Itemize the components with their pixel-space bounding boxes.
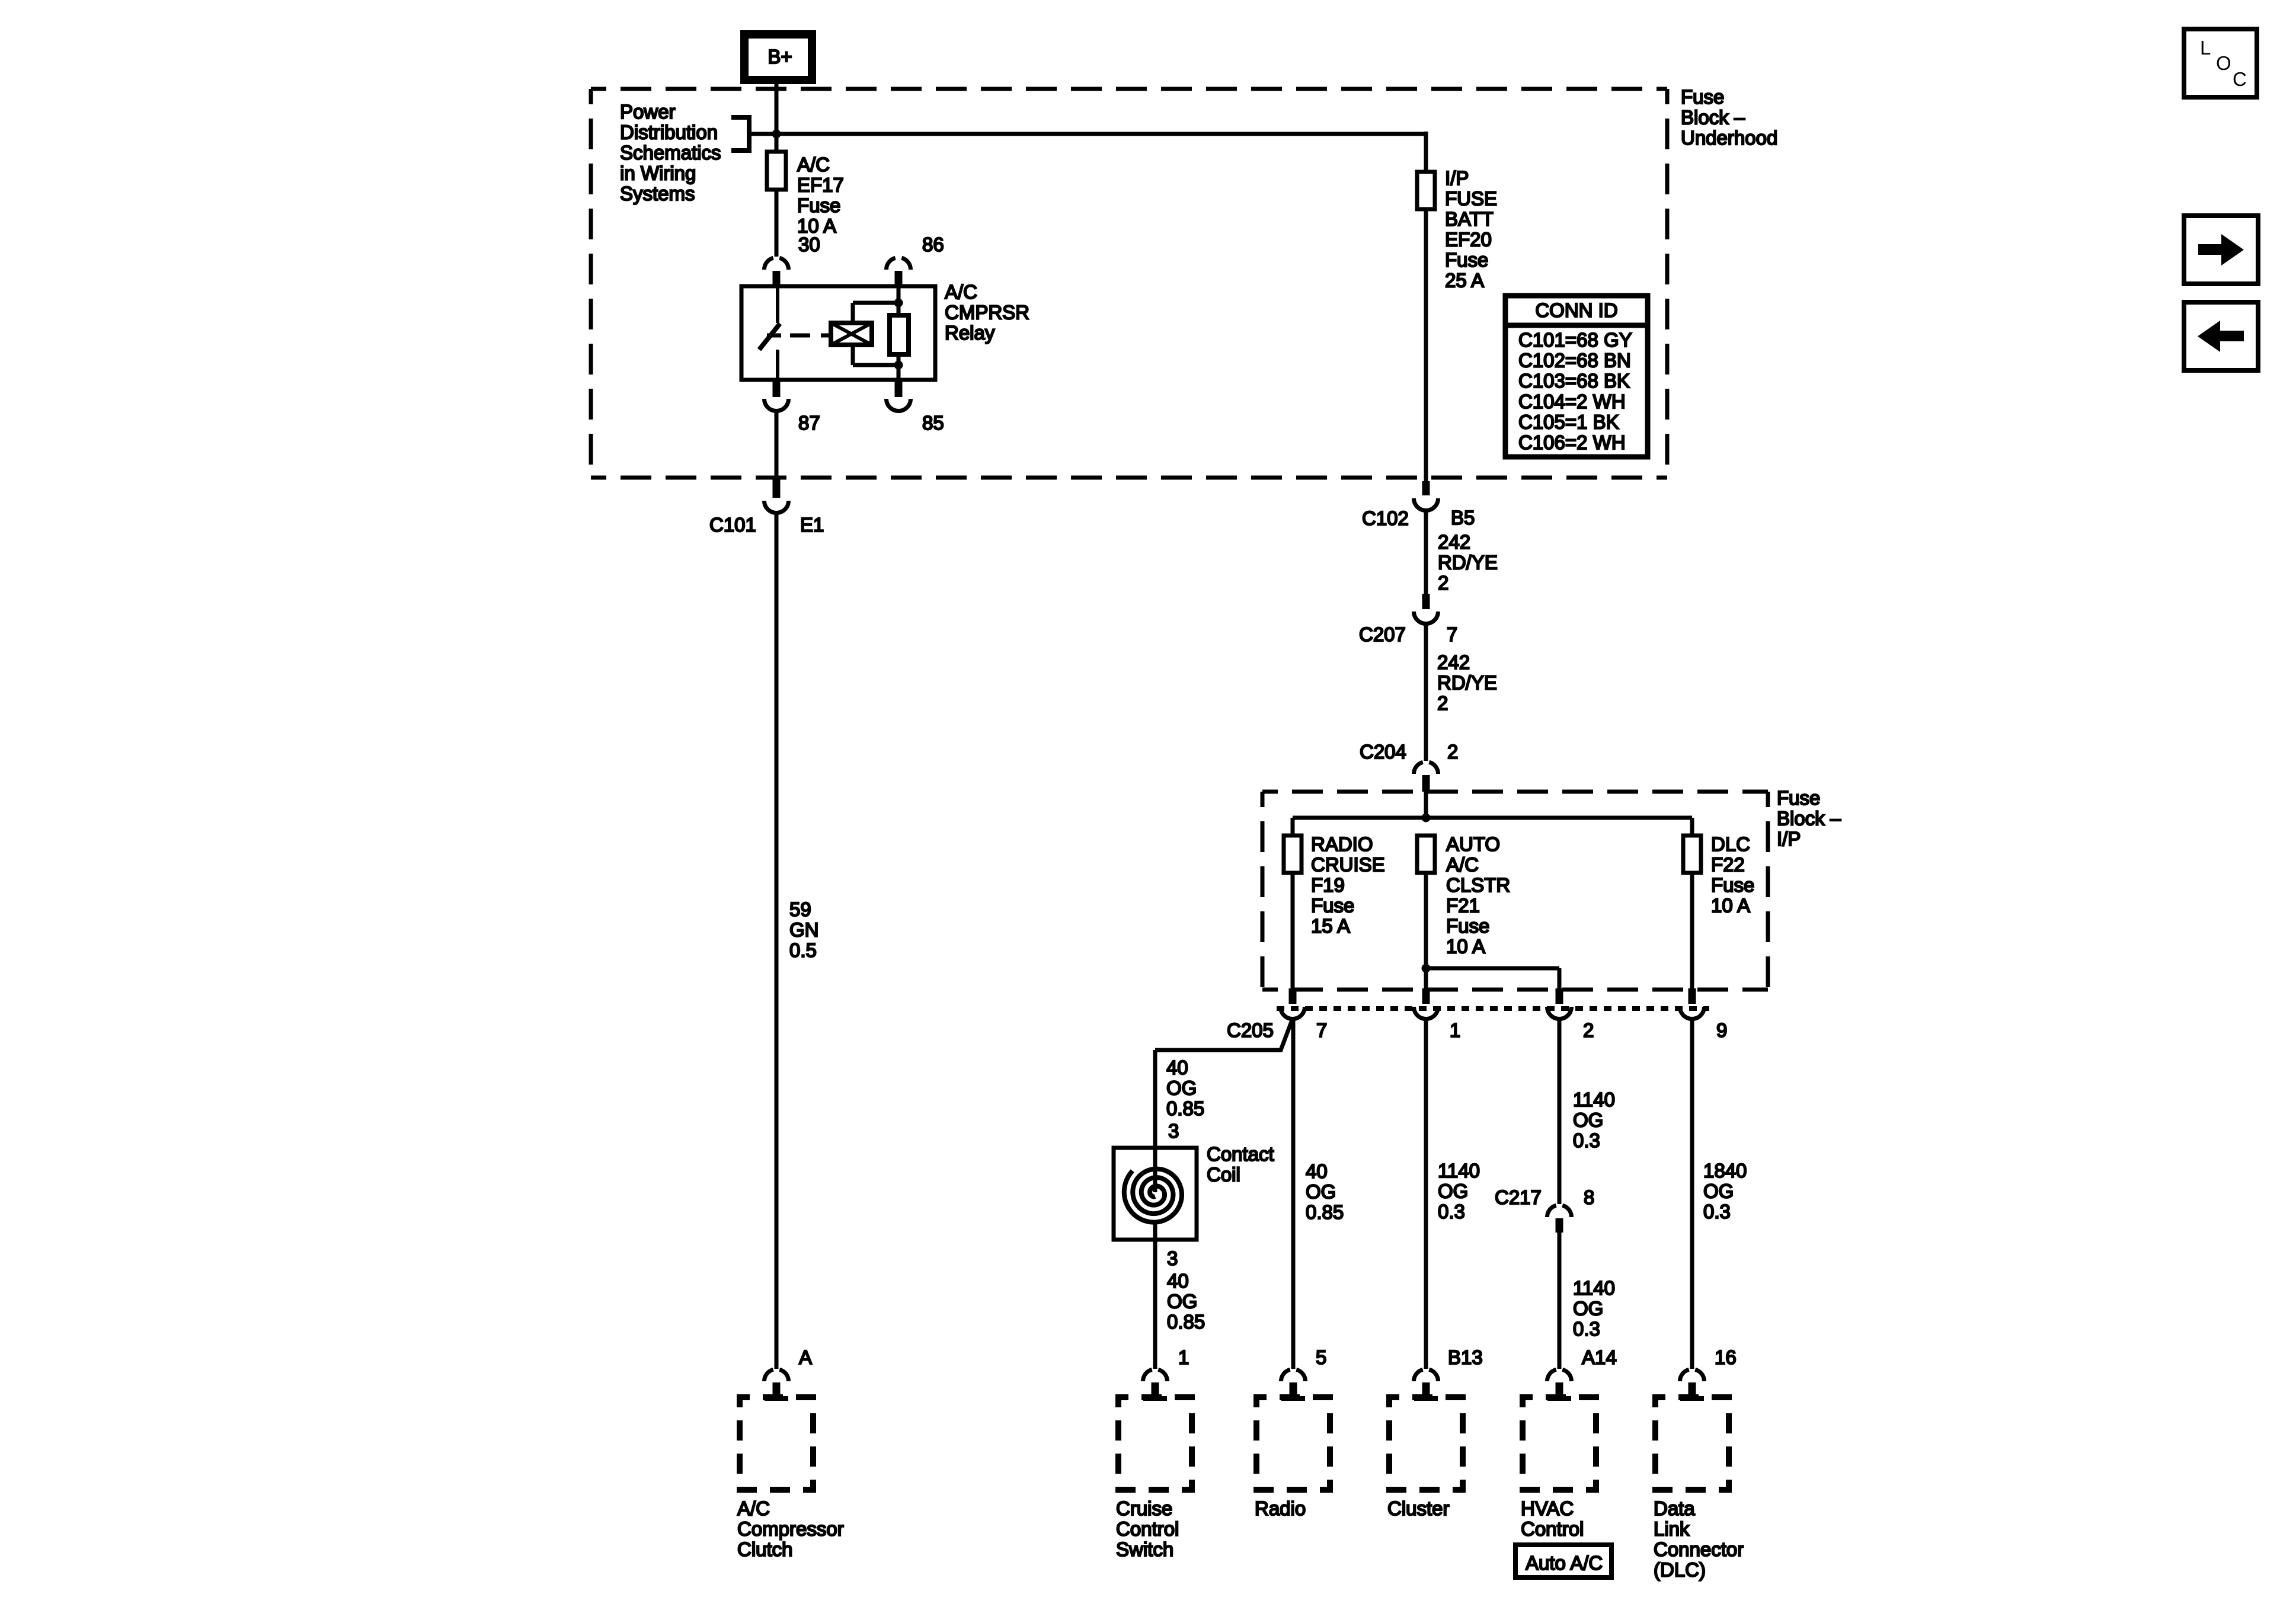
svg-text:85: 85 — [922, 412, 944, 434]
svg-text:3: 3 — [1168, 1120, 1179, 1142]
label Contact Coil — [1207, 1143, 1274, 1186]
connector C205 dotted line — [1277, 1006, 1709, 1011]
svg-text:Cluster: Cluster — [1387, 1497, 1450, 1519]
wire F19 to C205-7 — [1291, 872, 1295, 990]
label DLC F22 Fuse 10 A — [1711, 833, 1754, 917]
svg-text:Connector: Connector — [1654, 1538, 1744, 1560]
connector C101 E1 — [709, 479, 824, 536]
wire C204 to fuse block bus — [1424, 789, 1428, 818]
svg-text:RD/YE: RD/YE — [1438, 552, 1498, 574]
svg-text:I/P: I/P — [1445, 167, 1469, 189]
svg-text:Data: Data — [1654, 1497, 1695, 1519]
wire F21 down — [1424, 872, 1428, 990]
svg-text:Switch: Switch — [1116, 1538, 1173, 1560]
connector C205-2 — [1547, 988, 1572, 1019]
wire C217 to HVAC — [1558, 1233, 1562, 1369]
svg-text:L: L — [2200, 37, 2211, 59]
svg-text:40: 40 — [1166, 1057, 1188, 1078]
wire C205-7 to radio — [1291, 1019, 1296, 1369]
label I/P FUSE BATT EF20 Fuse 25 A — [1445, 167, 1497, 292]
junction node coil top — [894, 299, 903, 308]
svg-text:OG: OG — [1573, 1298, 1603, 1320]
wire C101 to A/C compressor clutch — [775, 513, 779, 1369]
svg-text:C102=68 BN: C102=68 BN — [1518, 350, 1631, 372]
note Power Distribution Schematics in Wiring Systems — [620, 101, 721, 204]
label pin 7 — [1316, 1019, 1327, 1041]
label AUTO A/C CLSTR F21 Fuse 10 A — [1446, 833, 1510, 958]
svg-text:FUSE: FUSE — [1445, 188, 1497, 210]
svg-text:OG: OG — [1573, 1109, 1603, 1131]
connector pin 30 — [765, 233, 820, 285]
svg-text:EF20: EF20 — [1445, 229, 1492, 251]
svg-text:8: 8 — [1584, 1186, 1594, 1208]
wire fuse EF17 to relay pin 30 — [775, 188, 779, 257]
connector C205-1 — [1414, 988, 1438, 1019]
svg-text:Power: Power — [620, 101, 676, 123]
svg-text:25 A: 25 A — [1445, 270, 1484, 292]
relay coil bottom wire — [853, 345, 898, 365]
svg-text:OG: OG — [1166, 1077, 1197, 1099]
relay coil top wire — [853, 303, 898, 323]
wire trunk to I/P fuse — [1424, 132, 1428, 173]
svg-text:O: O — [2216, 52, 2231, 74]
svg-text:Fuse: Fuse — [1446, 915, 1489, 937]
wire F22 to C205-9 — [1690, 872, 1694, 990]
forward arrow box — [2184, 216, 2258, 284]
svg-text:0.85: 0.85 — [1306, 1201, 1344, 1223]
power feed B+ box — [744, 34, 812, 80]
svg-text:C205: C205 — [1227, 1019, 1274, 1041]
svg-text:2: 2 — [1438, 572, 1448, 594]
fuse DLC F22 10A — [1683, 836, 1701, 873]
svg-text:C105=1 BK: C105=1 BK — [1518, 411, 1619, 433]
svg-text:10 A: 10 A — [1711, 895, 1750, 917]
svg-text:DLC: DLC — [1711, 833, 1750, 855]
svg-text:0.3: 0.3 — [1438, 1201, 1465, 1222]
label wire 40 OG 0.85 radio — [1306, 1160, 1344, 1223]
svg-text:1140: 1140 — [1573, 1277, 1615, 1299]
label wire 242 RD/YE 2 lower — [1437, 651, 1497, 714]
svg-text:0.3: 0.3 — [1573, 1318, 1600, 1340]
svg-text:C: C — [2233, 68, 2247, 90]
fuse block underhood dashed box — [591, 89, 1667, 478]
svg-text:RD/YE: RD/YE — [1437, 672, 1497, 694]
component Cruise Control Switch with connector 1 — [1116, 1346, 1192, 1560]
svg-text:C104=2 WH: C104=2 WH — [1518, 391, 1626, 412]
svg-text:BATT: BATT — [1445, 208, 1494, 230]
label Fuse Block - I/P — [1777, 787, 1841, 850]
CONN ID table — [1505, 296, 1648, 457]
component Data Link Connector with connector 16 — [1654, 1346, 1744, 1581]
wire relay 87 to C101 — [775, 411, 779, 479]
label wire 1840 OG 0.3 dlc — [1703, 1160, 1747, 1222]
contact coil spiral — [1124, 1148, 1182, 1222]
svg-text:Control: Control — [1116, 1518, 1179, 1540]
relay 86 internal wire — [897, 288, 901, 378]
svg-text:OG: OG — [1703, 1180, 1734, 1202]
svg-text:Distribution: Distribution — [620, 121, 718, 143]
svg-text:A/C: A/C — [737, 1497, 770, 1519]
svg-text:A/C: A/C — [797, 153, 830, 175]
svg-text:Relay: Relay — [945, 322, 995, 344]
svg-text:E1: E1 — [800, 514, 824, 536]
svg-text:3: 3 — [1167, 1247, 1178, 1269]
svg-text:0.5: 0.5 — [789, 939, 817, 961]
label wire 59 GN 0.5 — [789, 898, 819, 961]
junction node F21 branch — [1422, 964, 1431, 973]
svg-text:0.85: 0.85 — [1167, 1311, 1205, 1333]
svg-text:Radio: Radio — [1255, 1497, 1306, 1519]
svg-text:40: 40 — [1167, 1270, 1189, 1292]
relay coil box with X — [823, 323, 872, 345]
junction node coil bottom — [894, 361, 903, 370]
label wire 40 OG 0.85 coil lower — [1167, 1270, 1205, 1333]
svg-text:F21: F21 — [1446, 895, 1480, 917]
svg-text:Compressor: Compressor — [737, 1518, 844, 1540]
svg-text:EF17: EF17 — [797, 174, 844, 196]
fuse I/P BATT EF20 25A — [1417, 172, 1435, 209]
connector pin 85 — [887, 381, 944, 434]
component A/C Compressor Clutch with connector A — [737, 1346, 844, 1560]
svg-text:1840: 1840 — [1703, 1160, 1747, 1182]
LOC reference box — [2184, 29, 2257, 97]
bracket for note — [731, 115, 749, 153]
junction node at B+ wire — [772, 130, 781, 139]
svg-text:C101: C101 — [709, 514, 756, 536]
svg-text:C103=68 BK: C103=68 BK — [1518, 370, 1630, 392]
svg-text:CRUISE: CRUISE — [1311, 854, 1385, 876]
relay resistor — [890, 315, 909, 354]
relay switch contact — [759, 288, 781, 380]
Auto A/C function box — [1515, 1545, 1611, 1577]
svg-text:2: 2 — [1583, 1019, 1594, 1041]
component Cluster with connector B13 — [1387, 1346, 1483, 1519]
wire trunk horizontal — [749, 132, 1426, 136]
label Fuse Block - Underhood — [1681, 86, 1777, 149]
svg-text:Control: Control — [1521, 1518, 1584, 1540]
component HVAC Control with connector A14 — [1521, 1346, 1617, 1540]
svg-text:A: A — [799, 1346, 812, 1368]
relay switch-coil dashed link — [790, 334, 831, 338]
fuse A/C EF17 10A — [767, 152, 786, 190]
fuse AUTO A/C CLSTR F21 10A — [1417, 836, 1435, 873]
bus wire in fuse block — [1293, 818, 1692, 837]
svg-text:B+: B+ — [768, 46, 792, 68]
junction node bus at C204 — [1422, 814, 1431, 822]
svg-text:30: 30 — [798, 233, 820, 255]
svg-text:1: 1 — [1450, 1019, 1460, 1041]
svg-text:in Wiring: in Wiring — [620, 162, 696, 184]
svg-text:7: 7 — [1316, 1019, 1327, 1041]
svg-text:C106=2 WH: C106=2 WH — [1518, 431, 1626, 453]
svg-text:Clutch: Clutch — [737, 1538, 793, 1560]
svg-text:Systems: Systems — [620, 183, 695, 204]
svg-text:10 A: 10 A — [1446, 936, 1485, 958]
svg-text:C204: C204 — [1360, 741, 1406, 763]
svg-text:5: 5 — [1316, 1346, 1326, 1368]
svg-text:RADIO: RADIO — [1311, 833, 1373, 855]
svg-text:Fuse: Fuse — [797, 194, 840, 216]
svg-text:OG: OG — [1438, 1180, 1468, 1202]
label A/C EF17 Fuse 10 A — [797, 153, 844, 237]
connector C205-9 — [1680, 988, 1705, 1019]
svg-text:OG: OG — [1167, 1291, 1197, 1313]
label wire 1140 OG 0.3 hvac lower — [1573, 1277, 1615, 1340]
wire C205-1 to cluster — [1424, 1019, 1428, 1369]
wire C205-2 to C217 — [1558, 1019, 1562, 1204]
svg-text:B5: B5 — [1451, 507, 1475, 529]
connector C204 2 — [1360, 741, 1458, 792]
relay A/C CMPRSR box — [741, 286, 935, 380]
label pin 2 — [1583, 1019, 1594, 1041]
svg-text:GN: GN — [789, 919, 819, 941]
connector C207 7 — [1359, 594, 1457, 645]
contact coil box — [1114, 1148, 1197, 1240]
label wire 40 OG 0.85 coil upper — [1166, 1057, 1204, 1119]
svg-text:C101=68 GY: C101=68 GY — [1518, 329, 1632, 351]
label A/C CMPRSR Relay — [945, 281, 1029, 344]
wire C102 to C207 — [1424, 510, 1428, 595]
svg-text:CLSTR: CLSTR — [1446, 874, 1510, 896]
wire C205-9 to DLC — [1690, 1019, 1694, 1369]
wire C207 to C204 — [1424, 623, 1428, 761]
svg-text:Fuse: Fuse — [1681, 86, 1724, 108]
label pin 9 — [1716, 1019, 1727, 1041]
fuse block I/P dashed box — [1262, 792, 1768, 990]
wire B+ to junction — [775, 80, 779, 153]
svg-text:C217: C217 — [1495, 1186, 1542, 1208]
svg-text:A/C: A/C — [945, 281, 977, 303]
svg-text:Fuse: Fuse — [1777, 787, 1820, 809]
svg-text:F22: F22 — [1711, 854, 1745, 876]
svg-text:F19: F19 — [1311, 874, 1345, 896]
svg-text:Underhood: Underhood — [1681, 127, 1777, 149]
svg-text:0.3: 0.3 — [1703, 1201, 1731, 1222]
svg-text:16: 16 — [1715, 1346, 1737, 1368]
component Radio with connector 5 — [1255, 1346, 1330, 1519]
svg-text:OG: OG — [1306, 1181, 1336, 1203]
svg-text:A/C: A/C — [1446, 854, 1479, 876]
svg-text:7: 7 — [1447, 623, 1457, 645]
svg-text:Block –: Block – — [1681, 107, 1745, 129]
label wire 1140 OG 0.3 hvac upper — [1573, 1089, 1615, 1151]
svg-text:Coil: Coil — [1207, 1164, 1240, 1186]
wire EF20 fuse to C102 — [1424, 208, 1428, 481]
label pin 1 — [1450, 1019, 1460, 1041]
connector C205-7 — [1281, 988, 1305, 1019]
svg-text:1140: 1140 — [1438, 1160, 1480, 1182]
wire coil to cruise switch — [1153, 1221, 1157, 1369]
back arrow box — [2184, 302, 2258, 370]
svg-text:Contact: Contact — [1207, 1143, 1274, 1165]
svg-text:Fuse: Fuse — [1311, 895, 1354, 917]
svg-text:242: 242 — [1437, 651, 1470, 673]
svg-text:AUTO: AUTO — [1446, 833, 1500, 855]
label C205 — [1227, 1019, 1274, 1041]
svg-text:B13: B13 — [1448, 1346, 1483, 1368]
svg-text:Cruise: Cruise — [1116, 1497, 1172, 1519]
connector pin 87 — [765, 381, 820, 434]
svg-text:2: 2 — [1437, 692, 1448, 714]
svg-text:87: 87 — [798, 412, 820, 434]
connector pin 86 — [887, 233, 944, 285]
label pin 3 lower — [1167, 1247, 1178, 1269]
svg-text:C207: C207 — [1359, 623, 1406, 645]
svg-text:Block –: Block – — [1777, 808, 1841, 830]
svg-text:40: 40 — [1306, 1160, 1328, 1182]
svg-text:I/P: I/P — [1777, 828, 1801, 850]
label wire 1140 OG 0.3 cluster — [1438, 1160, 1480, 1222]
svg-text:Fuse: Fuse — [1711, 874, 1754, 896]
svg-text:9: 9 — [1716, 1019, 1727, 1041]
wire C205-7 branch to contact coil — [1155, 1019, 1293, 1150]
svg-text:2: 2 — [1447, 741, 1458, 763]
svg-text:Schematics: Schematics — [620, 142, 721, 164]
svg-text:A14: A14 — [1582, 1346, 1617, 1368]
svg-text:Link: Link — [1654, 1518, 1690, 1540]
svg-text:1: 1 — [1178, 1346, 1189, 1368]
svg-text:59: 59 — [789, 898, 811, 920]
svg-text:HVAC: HVAC — [1521, 1497, 1574, 1519]
svg-text:CMPRSR: CMPRSR — [945, 302, 1029, 324]
svg-text:0.85: 0.85 — [1166, 1097, 1204, 1119]
svg-text:1140: 1140 — [1573, 1089, 1615, 1110]
label wire 242 RD/YE 2 upper — [1438, 531, 1498, 594]
svg-text:Fuse: Fuse — [1445, 249, 1488, 271]
label pin 3 upper — [1168, 1120, 1179, 1142]
connector C217 8 — [1495, 1186, 1594, 1233]
svg-text:242: 242 — [1438, 531, 1470, 553]
fuse RADIO CRUISE F19 15A — [1284, 836, 1302, 873]
svg-text:(DLC): (DLC) — [1654, 1559, 1706, 1581]
label RADIO CRUISE F19 Fuse 15 A — [1311, 833, 1385, 937]
svg-text:15 A: 15 A — [1311, 915, 1350, 937]
wire branch to pin 2 — [1426, 968, 1559, 990]
svg-text:0.3: 0.3 — [1573, 1129, 1600, 1151]
svg-text:C102: C102 — [1362, 507, 1409, 529]
svg-text:CONN ID: CONN ID — [1535, 299, 1617, 321]
svg-text:Auto A/C: Auto A/C — [1526, 1552, 1603, 1574]
connector C102 B5 — [1362, 481, 1475, 529]
svg-text:86: 86 — [922, 233, 944, 255]
